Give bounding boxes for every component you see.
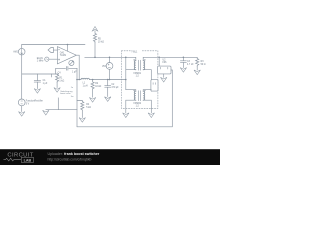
wire feedback horizontal y74 <box>22 73 59 75</box>
svg-text:1 µF: 1 µF <box>72 72 77 74</box>
rail to box <box>89 79 125 81</box>
ground under C2 <box>105 97 111 102</box>
switch box U2 <box>158 57 171 74</box>
wire AM1 top <box>21 45 23 49</box>
wire bottom long <box>77 126 172 128</box>
svg-text:R4: R4 <box>86 104 90 106</box>
svg-text:1 µH: 1 µH <box>83 86 88 88</box>
ground under R3 <box>194 70 200 75</box>
capacitor C3 <box>180 57 194 68</box>
wire mid rail y57.3 <box>85 56 136 58</box>
ammeter AM2 <box>69 60 74 65</box>
logo LAB box <box>21 157 33 162</box>
node VM1 rail2 <box>109 79 111 81</box>
ground under R4 <box>79 118 85 123</box>
ammeter AM1 <box>13 48 25 55</box>
svg-text:R1: R1 <box>59 78 63 80</box>
ground under R2 <box>89 98 95 103</box>
signal source SG1 <box>37 57 58 63</box>
wire top horizontal <box>22 44 85 46</box>
capacitor C1 <box>34 74 48 89</box>
footer bar <box>0 149 220 165</box>
svg-text:5 V: 5 V <box>26 104 30 106</box>
wire cap box left down <box>55 68 57 74</box>
node VM1 rail <box>109 57 111 59</box>
ground left end <box>43 110 49 115</box>
svg-text:C2: C2 <box>111 84 115 86</box>
svg-text:C1: C1 <box>43 80 47 82</box>
wire VM1 top <box>109 57 111 62</box>
svg-text:50 Ω: 50 Ω <box>201 64 206 66</box>
ground under C3 <box>180 68 186 73</box>
resistor R1 <box>55 74 64 83</box>
svg-text:FunctionRectifier: FunctionRectifier <box>26 100 43 103</box>
resistor R4 <box>81 101 92 111</box>
node R5 rail <box>94 57 96 59</box>
node junction V+ pin <box>67 44 69 46</box>
svg-text:10 kΩ: 10 kΩ <box>98 41 104 43</box>
wire output down to rail <box>78 55 80 79</box>
wire R4 ground <box>81 111 83 118</box>
capacitor C2 <box>105 79 119 97</box>
wire U2 ground <box>163 74 165 78</box>
svg-text:R2: R2 <box>95 83 99 85</box>
svg-text:TL081: TL081 <box>60 55 67 57</box>
label dashed box <box>131 49 143 53</box>
voltmeter VM1 <box>102 63 113 70</box>
svg-text:AM1: AM1 <box>13 51 18 54</box>
ground under V1 <box>19 112 25 117</box>
rail right segment <box>143 56 197 58</box>
svg-text:ELM1: ELM1 <box>37 58 44 60</box>
op-amp OA1 <box>57 47 76 64</box>
wire probe vertical <box>150 70 152 92</box>
wire R3 ground <box>196 67 198 70</box>
svg-text:F06: F06 <box>163 62 168 64</box>
svg-text:1n: 1n <box>71 87 73 89</box>
wire ground branch y109.7 <box>46 109 77 111</box>
ground under C1 <box>34 89 40 94</box>
svg-text:C4: C4 <box>58 73 62 75</box>
node flag input <box>48 48 58 53</box>
capacitor C4 feedback <box>56 66 78 74</box>
wire R4 jog <box>77 100 82 102</box>
svg-text:470 µF: 470 µF <box>111 87 119 89</box>
svg-text:boost circui: boost circui <box>60 92 71 95</box>
svg-text:10 kΩ: 10 kΩ <box>95 86 101 88</box>
svg-text:R5: R5 <box>98 38 102 40</box>
wire R2 ground <box>92 89 94 98</box>
wire V1 to ground <box>21 106 23 112</box>
svg-text:LAB: LAB <box>24 158 32 162</box>
resistor R5 <box>93 31 104 44</box>
inductor L1 <box>81 78 89 87</box>
ground under XFMR2 left <box>123 113 129 118</box>
wire AM1 bottom to V1 <box>21 55 23 99</box>
transformer XFMR2 <box>126 90 152 113</box>
node output rail <box>78 79 80 81</box>
resistor R3 <box>196 57 206 66</box>
wire bus vertical left in box <box>125 57 127 89</box>
transformer XFMR1 <box>126 57 152 77</box>
svg-text:http://circuitlab.com/c/bnq6kb: http://circuitlab.com/c/bnq6kb <box>48 158 92 162</box>
svg-text:1:2: 1:2 <box>136 75 140 77</box>
wire R5 to rail <box>94 43 96 58</box>
wire stub vertical x58.3 <box>57 98 59 110</box>
svg-text:Uploader: frank boost switcher: Uploader: frank boost switcher <box>48 152 100 156</box>
svg-text:1:2: 1:2 <box>136 106 140 108</box>
note text block <box>60 87 73 98</box>
node bus rail <box>125 79 127 81</box>
wire V+ stub to op-amp <box>67 45 69 52</box>
svg-text:T-BL1: T-BL1 <box>131 51 138 53</box>
wire U2 right down <box>171 70 172 127</box>
svg-text:5 kΩ: 5 kΩ <box>86 107 91 109</box>
ground under XFMR2 right <box>148 113 154 118</box>
resistor R2 <box>91 79 102 89</box>
svg-text:C3: C3 <box>187 61 191 63</box>
power supply arrow <box>92 27 97 32</box>
dashed subcircuit box <box>121 51 157 109</box>
node stub tick <box>51 74 53 77</box>
ground under R1 <box>54 88 60 93</box>
svg-text:1m: 1m <box>71 96 74 98</box>
node center rail <box>76 79 78 81</box>
svg-text:1 kΩ: 1 kΩ <box>59 81 64 83</box>
logo zigzag <box>4 158 21 161</box>
wire op-amp output <box>76 54 79 56</box>
svg-text:R3: R3 <box>201 61 205 63</box>
ground under U2 <box>161 77 167 82</box>
probe box SW1 <box>151 80 158 91</box>
rail left segment <box>77 79 81 81</box>
wire center vertical down <box>76 68 78 127</box>
svg-text:VM1: VM1 <box>102 66 107 68</box>
wire R1 to ground <box>56 83 58 88</box>
svg-text:4.7 nF: 4.7 nF <box>187 64 194 66</box>
svg-text:1 µF: 1 µF <box>43 83 48 85</box>
svg-text:L1: L1 <box>83 83 86 85</box>
voltage source V1 <box>18 99 43 106</box>
node bus top <box>125 57 127 59</box>
wire VM1 bottom <box>109 69 111 79</box>
svg-text:1 MHz: 1 MHz <box>37 61 44 63</box>
